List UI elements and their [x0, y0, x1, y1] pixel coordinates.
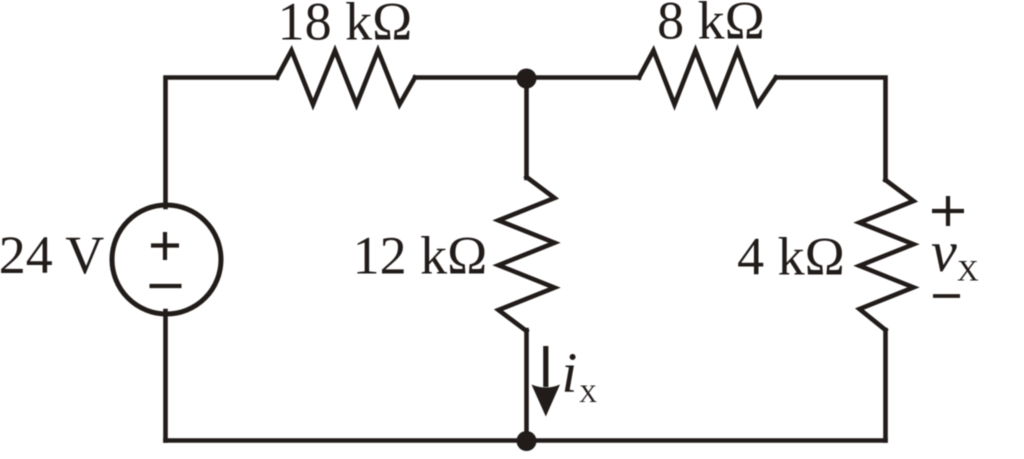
wire middle-bottom [524, 330, 529, 441]
resistor 12 kOhm [499, 177, 555, 331]
svg-text:12 kΩ: 12 kΩ [353, 226, 488, 286]
svg-text:i: i [562, 342, 578, 405]
wire top-middle [415, 75, 639, 80]
svg-text:18 kΩ: 18 kΩ [278, 0, 413, 52]
svg-text:X: X [579, 381, 597, 408]
svg-text:8 kΩ: 8 kΩ [657, 0, 765, 51]
resistor 4 kOhm [860, 180, 914, 330]
wire top-left horizontal [166, 78, 278, 208]
wire left-bottom [163, 311, 168, 441]
svg-text:4 kΩ: 4 kΩ [737, 227, 845, 287]
svg-text:v: v [931, 219, 957, 284]
node dot top (junction of 18k, 8k, 12k) [517, 69, 537, 89]
wire bottom [166, 438, 886, 443]
wire right-bottom [883, 330, 888, 441]
resistor 18 kOhm [277, 51, 415, 105]
wire top-right and right drop [776, 78, 886, 181]
svg-text:X: X [957, 255, 979, 288]
voltage source minus sign [150, 284, 182, 288]
wire middle-top [524, 78, 529, 179]
node dot bottom [517, 431, 537, 451]
current arrow ix shaft [543, 346, 548, 387]
minus sign of vx [933, 294, 960, 298]
svg-text:24 V: 24 V [0, 225, 104, 285]
resistor 8 kOhm [639, 51, 776, 105]
current arrow ix head [532, 385, 561, 417]
voltage source plus sign [151, 232, 179, 260]
voltage source V1 circle [112, 205, 221, 314]
plus sign of vx [932, 196, 964, 226]
